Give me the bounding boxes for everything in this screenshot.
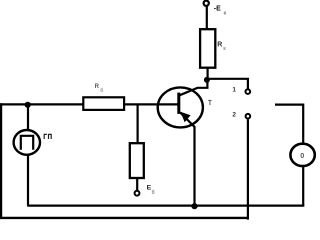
svg-text:0: 0	[300, 151, 304, 160]
svg-text:R: R	[95, 84, 100, 90]
svg-text:к: к	[224, 11, 227, 17]
svg-text:-E: -E	[214, 6, 221, 13]
svg-text:б: б	[100, 87, 103, 94]
svg-text:б: б	[152, 189, 155, 196]
svg-text:2: 2	[232, 112, 236, 119]
svg-text:R: R	[217, 41, 222, 48]
svg-text:1: 1	[232, 87, 236, 94]
